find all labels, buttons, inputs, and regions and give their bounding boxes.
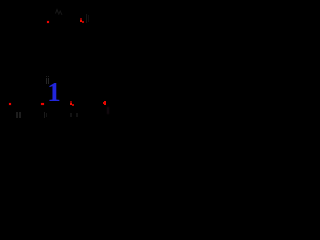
faint dark crest top-center <box>53 7 65 17</box>
faint label under mid-left pip <box>44 112 45 117</box>
red diamond pip top-left <box>47 21 50 24</box>
red diamond pip bottom far-left <box>9 103 12 106</box>
faint dark bars right of heart <box>86 14 87 24</box>
faint label under mid-right pip <box>70 113 71 118</box>
big blue numeral 1 <box>40 79 68 109</box>
red diamond pip bottom mid-left <box>41 103 43 105</box>
faint smudge under far-right pip <box>107 107 109 114</box>
faint label under far-left pip <box>16 112 18 117</box>
red arrow pip bottom far-right <box>104 101 105 106</box>
red heart pip top-right <box>80 18 82 19</box>
small ii mark above the 1 <box>46 76 47 77</box>
red heart pip bottom mid-right <box>70 101 72 102</box>
